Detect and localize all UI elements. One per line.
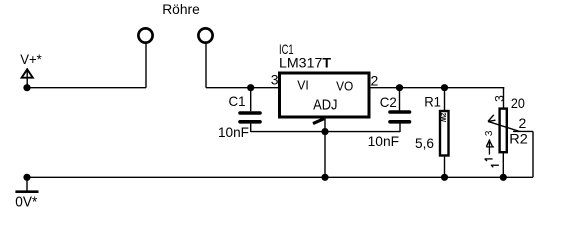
resistor R1	[415, 88, 449, 178]
svg-text:0V*: 0V*	[15, 194, 37, 209]
svg-text:3: 3	[492, 95, 506, 102]
node V+ junction	[23, 84, 30, 91]
node C2 top junction	[396, 84, 403, 91]
svg-text:10nF: 10nF	[368, 133, 400, 149]
svg-text:20: 20	[511, 95, 525, 111]
svg-text:ADJ: ADJ	[313, 98, 337, 114]
svg-text:5,6: 5,6	[415, 135, 434, 151]
pad name 1 rotated	[491, 165, 499, 167]
body R2	[500, 109, 507, 153]
op-amp IC1 LM317T regulator box	[279, 41, 369, 117]
pin 1 arrow mark	[313, 119, 324, 124]
svg-text:2: 2	[519, 115, 527, 131]
wire R2 bottom lead	[502, 153, 504, 177]
svg-text:VO: VO	[336, 79, 353, 94]
svg-text:3: 3	[484, 130, 495, 136]
potentiometer R2	[484, 88, 533, 178]
svg-text:C2: C2	[380, 94, 397, 110]
node rail 0V junction	[23, 174, 30, 181]
svg-text:R1: R1	[424, 93, 441, 109]
node C1 top junction	[247, 84, 254, 91]
svg-text:10nF: 10nF	[218, 124, 249, 140]
svg-text:R2: R2	[509, 130, 528, 146]
node ADJ junction	[321, 128, 328, 135]
capacitor C2	[368, 88, 410, 149]
wire right vertical	[532, 131, 534, 177]
svg-text:LM317T: LM317T	[279, 55, 331, 71]
wire R2 top feed	[503, 87, 506, 89]
svg-text:VI: VI	[297, 78, 309, 93]
wire wiper to right	[513, 130, 533, 132]
wire	[27, 87, 146, 89]
wire output net	[371, 87, 505, 89]
svg-text:2: 2	[371, 73, 379, 89]
svg-text:V+*: V+*	[20, 51, 42, 67]
wire	[206, 87, 279, 89]
node rail R2 junction	[500, 174, 507, 181]
wire ground rail	[27, 176, 533, 178]
wire	[205, 44, 207, 88]
wire ADJ pin down	[324, 118, 326, 177]
svg-text:C1: C1	[229, 93, 246, 109]
pin number 1 rotated	[485, 159, 493, 161]
svg-text:Röhre: Röhre	[162, 1, 200, 17]
direction arrow	[488, 140, 490, 155]
pad Röhre pin A	[138, 28, 152, 42]
supply flag V+	[20, 51, 42, 88]
node rail ADJ junction	[321, 174, 328, 181]
pad Röhre pin B	[198, 28, 212, 42]
node R1 top junction	[441, 84, 448, 91]
capacitor C1	[218, 88, 260, 140]
svg-text:2W: 2W	[439, 113, 448, 123]
wire	[145, 44, 147, 88]
svg-text:3: 3	[271, 72, 279, 88]
wiper arrow diagonal	[488, 121, 520, 131]
ground 0V flag	[15, 177, 38, 210]
node rail R1 junction	[441, 174, 448, 181]
wire ADJ net	[251, 131, 400, 133]
wire R2 top lead	[503, 88, 505, 108]
